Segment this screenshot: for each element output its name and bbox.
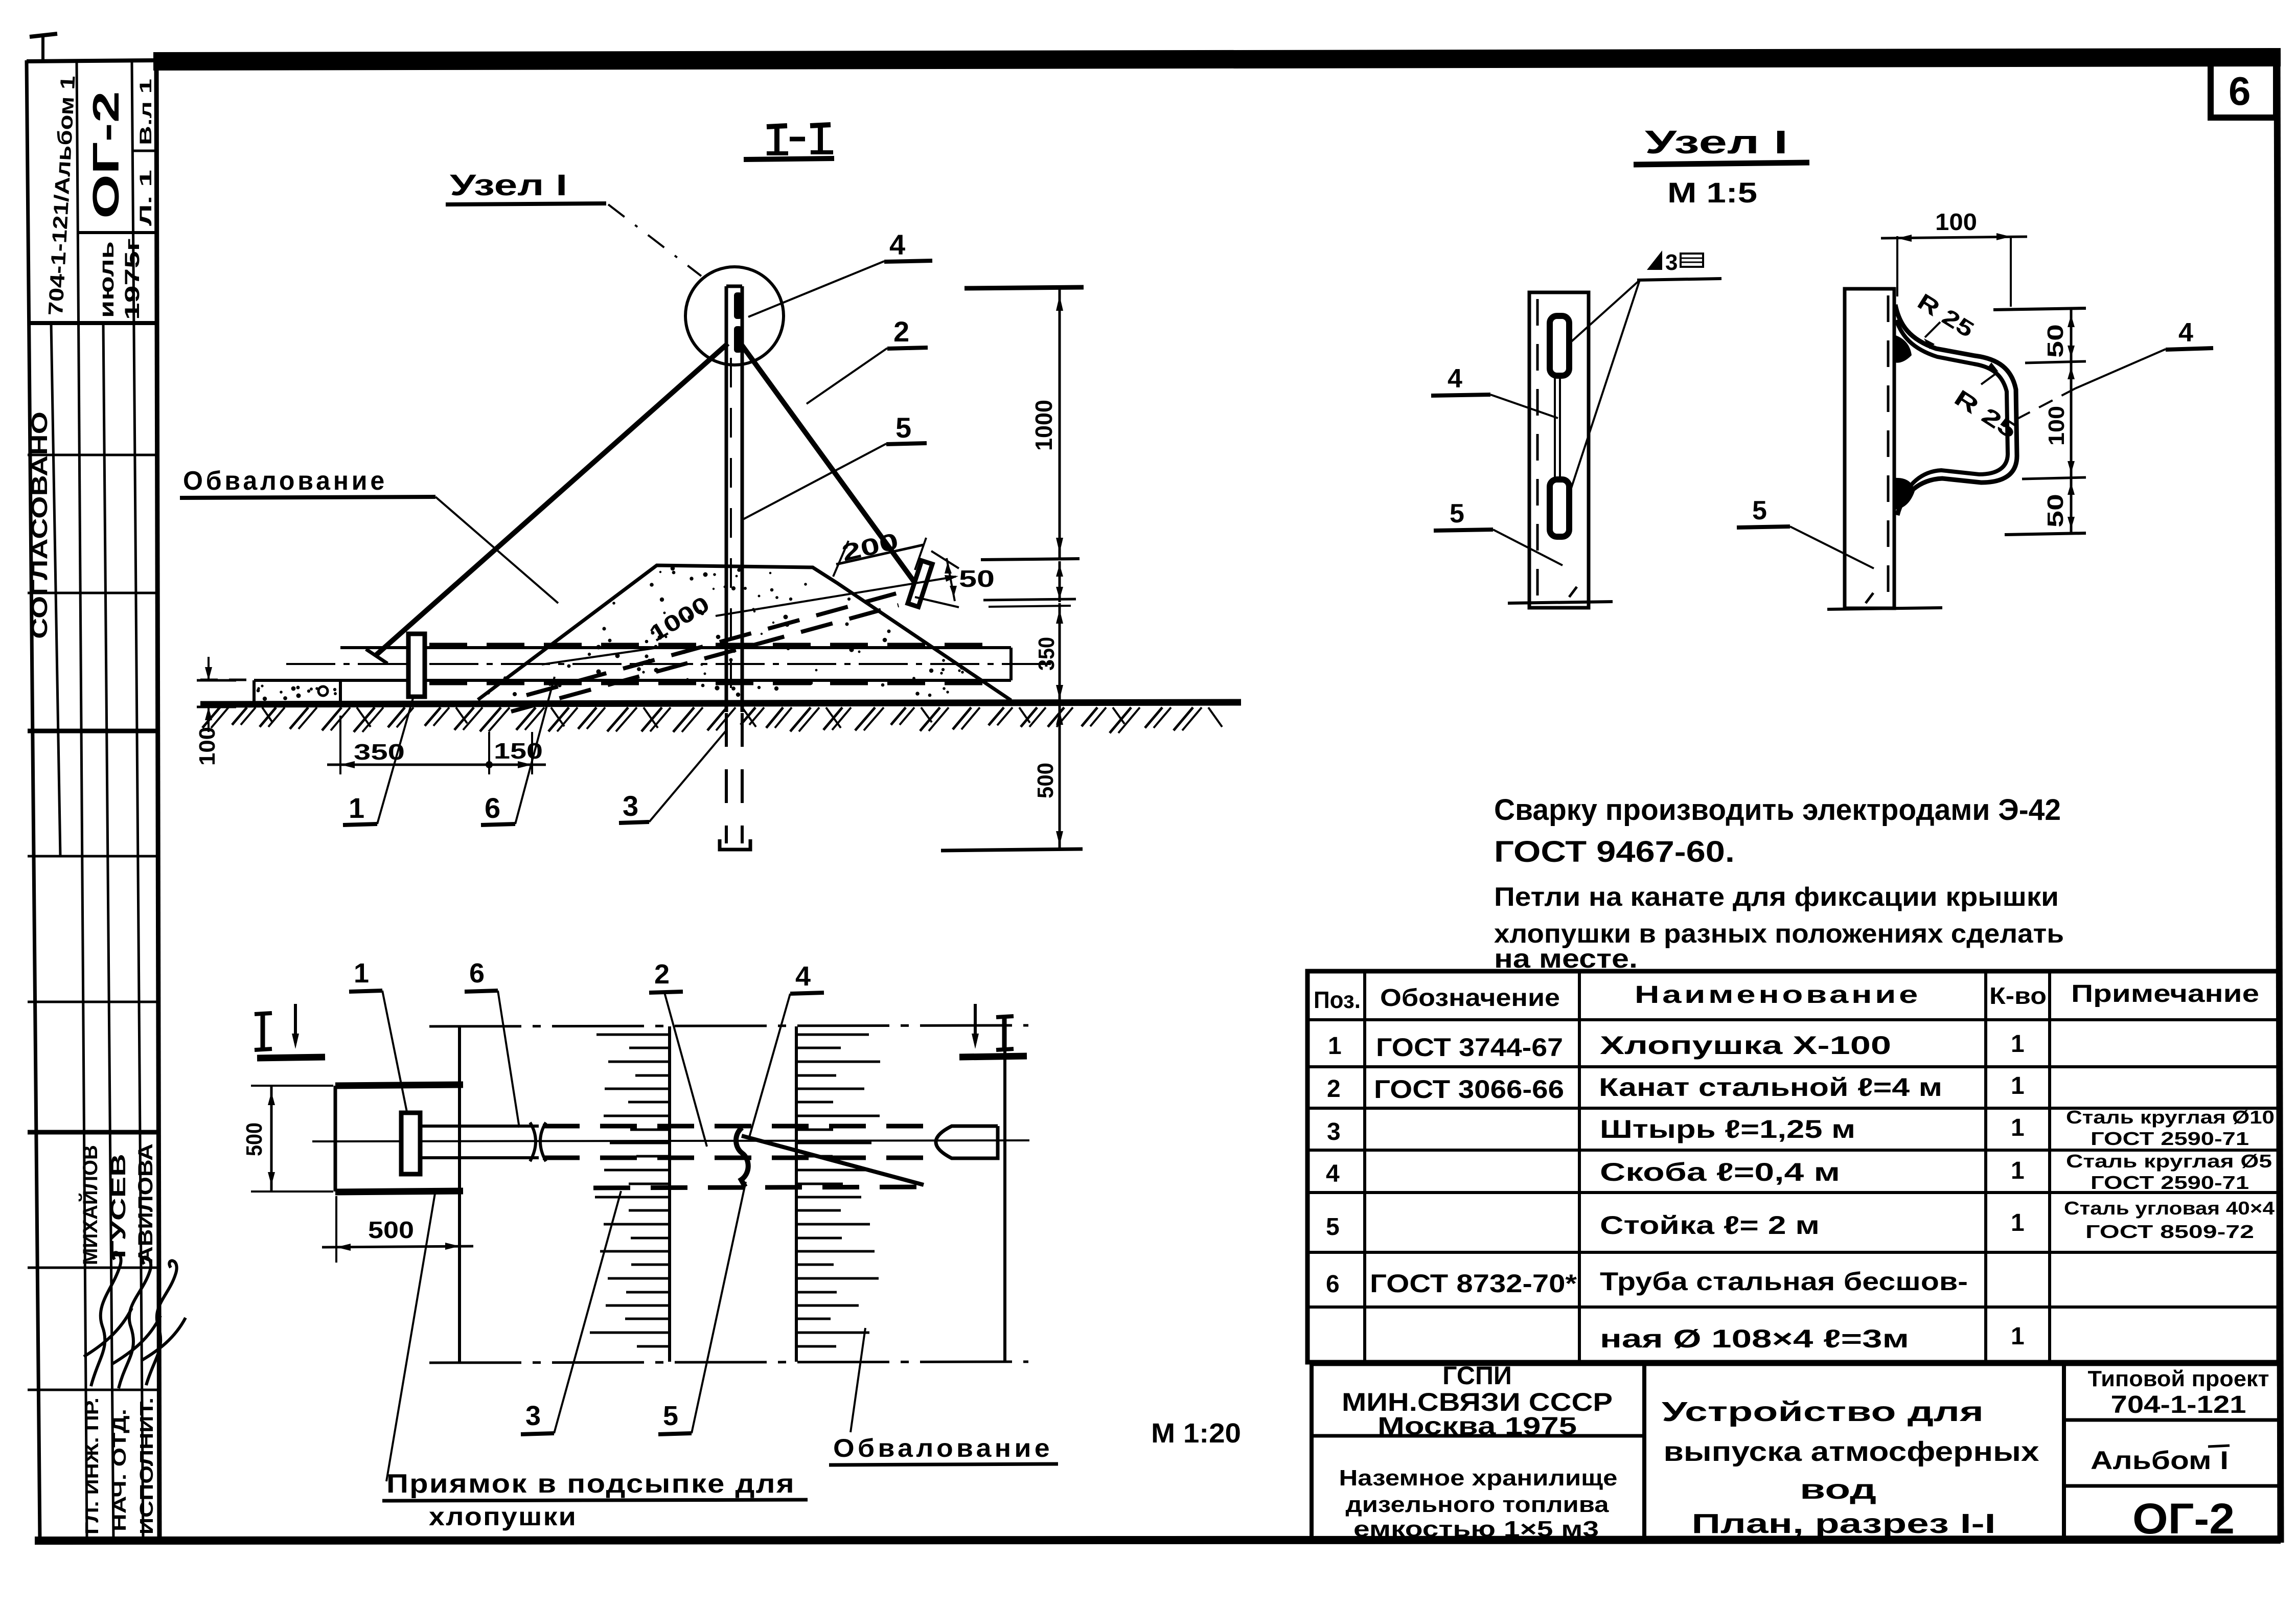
- svg-text:Петли на канате для фиксации к: Петли на канате для фиксации крышки: [1494, 882, 2059, 912]
- pad dashed extension: [200, 679, 254, 681]
- table verticals: [1363, 971, 1366, 1362]
- title block left divider: [1312, 1434, 1644, 1438]
- svg-text:4: 4: [1448, 364, 1462, 394]
- detail left: stoika item 5 front: [1529, 292, 1589, 608]
- dim 100 top: [1896, 236, 1898, 296]
- guy wire left kanat: [375, 343, 728, 656]
- svg-text:вод: вод: [1800, 1474, 1876, 1505]
- frame top border: [153, 57, 2281, 61]
- svg-text:Канат стальной ℓ=4 м: Канат стальной ℓ=4 м: [1599, 1073, 1942, 1102]
- svg-text:704-1-121: 704-1-121: [2111, 1391, 2246, 1418]
- callout leader dash-dot: [608, 204, 701, 276]
- plan skoba item 4: [736, 1128, 748, 1187]
- frame bottom border: [35, 1540, 2281, 1541]
- svg-text:выпуска атмосферных: выпуска атмосферных: [1664, 1436, 2039, 1467]
- svg-text:емкостью 1×5 м3: емкостью 1×5 м3: [1353, 1517, 1599, 1542]
- svg-text:дизельного топлива: дизельного топлива: [1346, 1492, 1610, 1517]
- table horizontals: [1307, 1018, 2279, 1021]
- svg-text:3: 3: [1327, 1118, 1341, 1145]
- tick pipe level (double): [983, 599, 1076, 600]
- dim 350-150: [339, 716, 341, 774]
- dim 350 vertical: [1059, 603, 1061, 704]
- svg-text:4: 4: [889, 228, 905, 261]
- svg-text:ГЛ. ИНЖ. ПР.: ГЛ. ИНЖ. ПР.: [81, 1397, 102, 1534]
- svg-text:1: 1: [2011, 1157, 2025, 1184]
- svg-text:100: 100: [2044, 406, 2069, 446]
- detail right: skoba bent bar outer: [1895, 305, 2017, 515]
- weld blobs: [1894, 335, 1912, 363]
- plan pipe hidden dashed: [543, 1124, 943, 1129]
- section title I-I: [767, 125, 833, 153]
- plan pipe axis: [312, 1140, 1029, 1141]
- svg-text:ИСПОЛНИТ.: ИСПОЛНИТ.: [136, 1397, 157, 1534]
- dim 500 vertical: [1059, 704, 1061, 851]
- pole below ground dashed: [725, 713, 728, 843]
- strip signatures: [84, 1252, 132, 1386]
- svg-text:5: 5: [1450, 499, 1464, 529]
- plan bund hatch right band: [796, 1035, 880, 1346]
- svg-text:ОГ-2: ОГ-2: [86, 91, 127, 219]
- svg-text:ГСПИ: ГСПИ: [1442, 1361, 1512, 1390]
- svg-text:500: 500: [368, 1217, 414, 1243]
- concrete pad: [254, 679, 340, 682]
- svg-text:1975г: 1975г: [121, 238, 144, 320]
- svg-text:2: 2: [1327, 1075, 1341, 1103]
- svg-text:1: 1: [349, 792, 364, 824]
- svg-text:5: 5: [1752, 496, 1767, 525]
- svg-text:Обвалование: Обвалование: [833, 1434, 1053, 1462]
- ground hatch: [202, 707, 1222, 733]
- svg-text:1: 1: [2011, 1209, 2025, 1236]
- svg-text:СОГЛАСОВАНО: СОГЛАСОВАНО: [27, 411, 52, 639]
- tick mound top level: [981, 559, 1080, 560]
- plan pipe weld arcs: [530, 1122, 536, 1161]
- svg-text:6: 6: [2229, 68, 2251, 113]
- svg-text:Обвалование: Обвалование: [183, 466, 387, 496]
- plan tank bottom centerline: [429, 1362, 1028, 1363]
- svg-text:5: 5: [896, 411, 911, 444]
- detail left: skoba rod: [1554, 376, 1556, 479]
- bund mound outline: [478, 565, 1011, 700]
- svg-text:100: 100: [195, 727, 220, 766]
- svg-text:6: 6: [1326, 1271, 1340, 1298]
- plan section mark left: [261, 1014, 265, 1049]
- svg-text:Сталь круглая Ø5: Сталь круглая Ø5: [2066, 1151, 2272, 1172]
- level tick top: [965, 287, 1084, 288]
- svg-text:2: 2: [893, 315, 909, 348]
- svg-text:Москва 1975: Москва 1975: [1377, 1413, 1577, 1440]
- detail right base: [1827, 608, 1942, 609]
- strip dividers: [28, 321, 158, 325]
- svg-text:5: 5: [1326, 1213, 1340, 1241]
- frame right border: [2277, 54, 2281, 1543]
- khlopushka plate item 1: [408, 634, 425, 697]
- svg-text:Л. 1: Л. 1: [136, 170, 155, 226]
- strip header sub-cells: [132, 150, 156, 152]
- plan pit (priyamok): [335, 1085, 463, 1086]
- parts table frame: [1307, 971, 2279, 1362]
- weld leaders: [1569, 280, 1640, 344]
- inclined pipe dashed pair: [526, 589, 913, 695]
- svg-text:1: 1: [354, 958, 369, 989]
- svg-text:ГОСТ 2590-71: ГОСТ 2590-71: [2091, 1128, 2249, 1149]
- title block frame: [1312, 1362, 2279, 1366]
- svg-text:Наименование: Наименование: [1635, 981, 1921, 1009]
- detail left base: [1508, 602, 1613, 603]
- title block right dividers: [2064, 1418, 2279, 1422]
- svg-text:100: 100: [1935, 209, 1977, 235]
- corner tick top-left: [30, 34, 57, 37]
- svg-text:ГОСТ 2590-71: ГОСТ 2590-71: [2091, 1172, 2249, 1193]
- svg-text:1: 1: [2011, 1323, 2025, 1350]
- svg-text:Штырь ℓ=1,25 м: Штырь ℓ=1,25 м: [1600, 1115, 1855, 1143]
- svg-text:План, разрез I-I: План, разрез I-I: [1692, 1508, 1996, 1539]
- svg-text:ГОСТ 9467-60.: ГОСТ 9467-60.: [1494, 835, 1735, 868]
- svg-text:М 1:20: М 1:20: [1151, 1418, 1241, 1449]
- plan tank top centerline: [429, 1025, 1028, 1026]
- svg-text:1000: 1000: [1030, 400, 1057, 451]
- plan dim 500 horizontal: [335, 1196, 337, 1263]
- R25 upper label: [1913, 289, 1979, 342]
- svg-text:НАЧ. ОТД.: НАЧ. ОТД.: [109, 1409, 130, 1531]
- svg-text:АВИЛОВА: АВИЛОВА: [134, 1143, 157, 1264]
- dim 200 inclined: [833, 541, 848, 577]
- svg-text:Приямок в подсыпке для: Приямок в подсыпке для: [386, 1469, 795, 1499]
- svg-text:50: 50: [2043, 494, 2068, 528]
- dim 50 at plate: [931, 551, 959, 568]
- svg-text:М 1:5: М 1:5: [1667, 176, 1757, 209]
- plan tank left wall: [458, 1026, 461, 1362]
- svg-text:350: 350: [1034, 637, 1059, 671]
- detail right: skoba bent bar inner: [1896, 320, 2008, 504]
- sheet number box: [2211, 55, 2276, 118]
- svg-text:Стойка ℓ= 2 м: Стойка ℓ= 2 м: [1600, 1211, 1820, 1240]
- svg-text:В.л 1: В.л 1: [136, 79, 155, 145]
- sand stipple dots: [257, 566, 964, 701]
- svg-text:Устройство для: Устройство для: [1662, 1396, 1984, 1427]
- svg-text:1: 1: [1328, 1033, 1342, 1060]
- ground line: [200, 702, 1241, 704]
- svg-text:хлопушки: хлопушки: [429, 1502, 577, 1531]
- svg-text:Хлопушка Х-100: Хлопушка Х-100: [1600, 1031, 1891, 1060]
- svg-text:Обозначение: Обозначение: [1380, 984, 1560, 1012]
- plan pipe outlet rounded end: [936, 1126, 998, 1158]
- svg-text:6: 6: [469, 958, 485, 989]
- left stamp strip verticals: [27, 60, 40, 1540]
- left stamp strip top edge: [27, 60, 156, 61]
- plan bund inner edge right: [795, 1026, 798, 1362]
- dim 1000 vertical: [1059, 289, 1061, 558]
- svg-text:К-во: К-во: [1989, 982, 2047, 1009]
- svg-text:ГОСТ 8732-70*: ГОСТ 8732-70*: [1370, 1269, 1577, 1298]
- dim 100 left: [197, 679, 236, 682]
- weld symbol delta-3: [1647, 250, 1662, 270]
- pipe centerline: [286, 663, 1054, 665]
- svg-text:МИХАЙЛОВ: МИХАЙЛОВ: [78, 1145, 102, 1265]
- svg-text:ГОСТ 3744-67: ГОСТ 3744-67: [1376, 1033, 1563, 1062]
- skoba plate item 4: [908, 561, 932, 607]
- svg-text:Примечание: Примечание: [2071, 980, 2259, 1007]
- svg-text:50: 50: [2043, 324, 2068, 358]
- plan bund hatch left band: [590, 1035, 670, 1346]
- bottom tick: [941, 849, 1083, 851]
- pipe hidden dashed top: [429, 643, 998, 648]
- svg-text:4: 4: [2178, 318, 2193, 348]
- svg-text:500: 500: [242, 1122, 267, 1156]
- plan lower dashed line: [593, 1187, 925, 1188]
- pole shtyr item 3: [725, 286, 728, 712]
- svg-text:ОГ-2: ОГ-2: [2132, 1495, 2235, 1543]
- svg-text:2: 2: [654, 959, 670, 990]
- svg-text:1: 1: [2011, 1030, 2025, 1058]
- detail right dim chain: [1993, 308, 2086, 310]
- detail left: skoba slots: [1550, 316, 1569, 376]
- svg-text:3: 3: [623, 790, 638, 822]
- svg-text:500: 500: [1033, 763, 1058, 798]
- plan pipe solid walls: [420, 1125, 539, 1128]
- svg-text:июль: июль: [96, 241, 118, 318]
- svg-text:5: 5: [663, 1401, 678, 1431]
- weld symbol shelf: [1637, 279, 1721, 280]
- dim 1000 along slope: [645, 591, 714, 647]
- detail circle: [685, 267, 784, 365]
- plan khlopushka plate: [401, 1113, 420, 1174]
- plan bund inner edge left: [668, 1026, 671, 1362]
- svg-text:ГОСТ 3066-66: ГОСТ 3066-66: [1374, 1075, 1564, 1104]
- svg-text:Альбом I: Альбом I: [2091, 1446, 2229, 1475]
- pole foot: [720, 839, 750, 850]
- plan dim 500 vertical: [251, 1085, 333, 1087]
- svg-text:ная Ø 108×4 ℓ=3м: ная Ø 108×4 ℓ=3м: [1600, 1324, 1909, 1353]
- svg-text:1: 1: [2011, 1114, 2025, 1141]
- svg-text:4: 4: [1326, 1160, 1340, 1187]
- plan tank right wall: [1003, 1026, 1006, 1362]
- plan wire diagonal: [742, 1136, 924, 1185]
- svg-text:3: 3: [1665, 250, 1678, 275]
- svg-text:50: 50: [959, 565, 995, 592]
- pole skoba slot top: [734, 292, 742, 319]
- svg-text:Скоба ℓ=0,4 м: Скоба ℓ=0,4 м: [1600, 1158, 1840, 1186]
- plan section mark right: [974, 1004, 977, 1043]
- svg-text:Поз.: Поз.: [1314, 987, 1361, 1013]
- svg-text:Труба стальная бесшов-: Труба стальная бесшов-: [1600, 1267, 1968, 1296]
- svg-text:3: 3: [525, 1401, 541, 1431]
- svg-text:Сталь круглая Ø10: Сталь круглая Ø10: [2066, 1107, 2275, 1128]
- pipe hidden dashed bottom: [429, 681, 998, 685]
- svg-text:Наземное хранилище: Наземное хранилище: [1339, 1465, 1618, 1491]
- pipe item 6 horizontal: [340, 646, 1011, 649]
- svg-text:Узел I: Узел I: [1645, 124, 1788, 161]
- svg-text:Сварку производить электродами: Сварку производить электродами Э-42: [1494, 793, 2061, 827]
- svg-text:6: 6: [485, 792, 500, 824]
- svg-text:ГОСТ 8509-72: ГОСТ 8509-72: [2085, 1221, 2254, 1242]
- svg-text:Типовой проект: Типовой проект: [2088, 1366, 2269, 1391]
- svg-text:Сталь угловая 40×4: Сталь угловая 40×4: [2064, 1198, 2275, 1219]
- detail right: stoika item 5 side: [1845, 289, 1894, 608]
- svg-text:1: 1: [2011, 1072, 2025, 1099]
- svg-text:ГУСЕВ: ГУСЕВ: [107, 1154, 130, 1258]
- guy wire right kanat: [741, 343, 916, 584]
- svg-text:4: 4: [795, 961, 811, 992]
- svg-text:Узел I: Узел I: [450, 169, 567, 202]
- R25 lower label: [1950, 385, 2022, 444]
- svg-text:МИН.СВЯЗИ СССР: МИН.СВЯЗИ СССР: [1342, 1388, 1613, 1416]
